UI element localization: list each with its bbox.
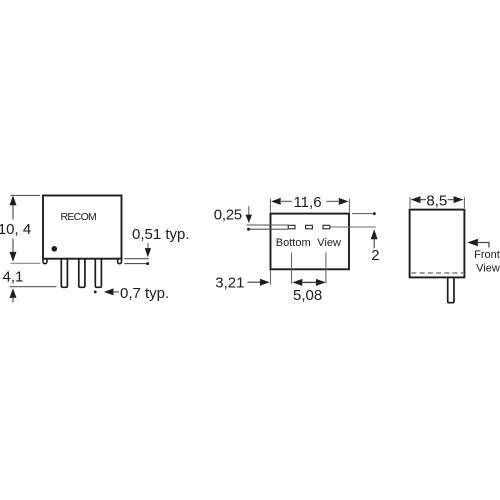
extension tick 8,5 right xyxy=(463,197,465,208)
pin 1 marker dot xyxy=(52,246,58,252)
svg-text:Bottom: Bottom xyxy=(276,237,311,249)
svg-text:8,5: 8,5 xyxy=(426,192,447,209)
pad 3 (bottom view) xyxy=(323,225,330,229)
dimension 2 arrow up xyxy=(371,229,378,239)
pin 2 (left view) xyxy=(79,259,85,288)
svg-text:11,6: 11,6 xyxy=(293,194,321,211)
extension line case bottom xyxy=(11,262,41,264)
package case (left view) xyxy=(43,196,122,259)
extension line pad 1 center xyxy=(291,253,293,284)
extension line 11,6 right xyxy=(348,199,350,213)
dimension 10,4 arrowhead down xyxy=(10,252,17,262)
right standoff foot xyxy=(118,259,122,264)
dimension 10,4 arrowhead up xyxy=(10,196,17,206)
svg-text:0,25: 0,25 xyxy=(214,206,242,223)
svg-text:3,21: 3,21 xyxy=(215,275,244,292)
svg-text:10, 4: 10, 4 xyxy=(0,221,31,238)
dimension 0,51 arrow down xyxy=(147,243,149,250)
dimension 11,6 arrowhead right xyxy=(339,198,349,205)
svg-text:4,1: 4,1 xyxy=(3,269,24,286)
dimension 10,4 line xyxy=(12,205,14,220)
package outline (bottom view) xyxy=(271,214,350,270)
svg-text:0,7 typ.: 0,7 typ. xyxy=(120,285,169,302)
svg-text:2: 2 xyxy=(371,247,379,264)
pad 1 (bottom view) xyxy=(288,225,295,229)
front view leader arrow xyxy=(467,239,478,247)
dimension 11,6 arrowhead left xyxy=(271,198,281,205)
left standoff foot xyxy=(43,259,47,264)
pin 1 (left view) xyxy=(61,259,67,288)
dimension 8,5 arrowhead right xyxy=(454,196,464,203)
pin (front view) xyxy=(448,278,454,303)
dimension 5,08 arrows xyxy=(292,279,302,286)
dimension 0,7 arrow pointing left xyxy=(104,288,114,295)
extension line 11,6 left xyxy=(269,199,271,213)
pad reference line lower with dot xyxy=(250,228,288,230)
svg-text:View: View xyxy=(317,237,341,249)
svg-text:View: View xyxy=(476,262,500,274)
dimension 4,1 arrow (outside, pointing up) xyxy=(10,288,17,298)
top reference line right with dot xyxy=(352,213,373,215)
svg-text:0,51 typ.: 0,51 typ. xyxy=(132,226,190,243)
0,51 reference line lower with dot xyxy=(124,263,146,265)
svg-text:Front: Front xyxy=(474,249,500,261)
extension tick 8,5 left xyxy=(409,197,411,208)
pin 3 (left view) xyxy=(95,259,101,288)
seating plane dashed line xyxy=(412,272,464,274)
extension line case top xyxy=(11,194,41,196)
svg-text:5,08: 5,08 xyxy=(293,287,322,304)
dimension 0,25 arrow down xyxy=(248,206,250,215)
extension line box left bottom xyxy=(270,270,272,285)
extension line pin bottom xyxy=(10,286,57,288)
pad reference line upper xyxy=(247,224,288,226)
dimension 0,7 dot marker xyxy=(94,291,97,294)
pad center line extended right xyxy=(330,226,376,228)
extension line pad 3 center xyxy=(325,253,327,284)
0,51 reference line upper xyxy=(124,258,148,260)
dimension 3,21 arrow right xyxy=(248,281,261,283)
dimension 8,5 arrowhead left xyxy=(411,196,421,203)
package outline (front view) xyxy=(410,210,465,278)
svg-text:RECOM: RECOM xyxy=(61,211,97,223)
pad 2 (bottom view) xyxy=(306,225,313,229)
